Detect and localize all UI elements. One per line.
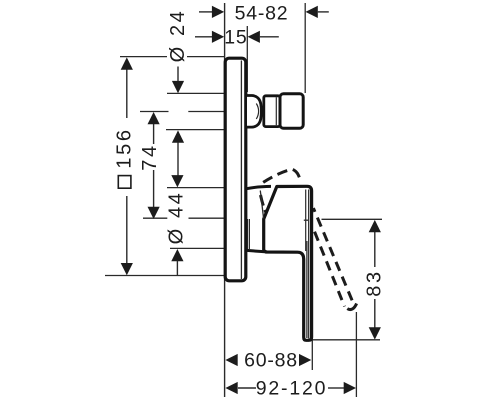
svg-text:54-82: 54-82 — [235, 2, 289, 24]
dashed body left edge — [261, 195, 268, 215]
dashed lever outer edge — [313, 208, 352, 301]
svg-text:92-120: 92-120 — [256, 378, 328, 400]
plate bottom extension line y275 — [105, 275, 225, 277]
dimension 74 arrow up — [148, 112, 160, 124]
spout tip extension line — [304, 3, 306, 93]
dimension 74 label — [139, 143, 161, 170]
cartridge bottom line y248 — [170, 247, 225, 249]
dimension O24 arrow down — [172, 81, 184, 93]
faceplate — [225, 58, 246, 281]
dimension 83 extension top — [322, 218, 383, 220]
handle cone top edge — [247, 186, 271, 188]
pipe top line y93 — [167, 92, 225, 94]
dimension 83 extension bottom — [312, 339, 380, 341]
dimension 15 — [195, 36, 212, 38]
cartridge top line y187 — [167, 187, 225, 189]
dimension O44 label — [165, 191, 187, 245]
dimension 156 arrow down — [121, 263, 133, 275]
dashed lever top edge — [263, 169, 301, 182]
svg-text:74: 74 — [139, 143, 161, 170]
faceplate inner face line — [240, 61, 242, 280]
dimension 156 label — [114, 127, 136, 188]
pipe bottom line y129 — [166, 129, 225, 131]
dimension 60-88 — [225, 354, 237, 366]
dimension 156 line — [126, 68, 128, 118]
svg-text:60-88: 60-88 — [244, 350, 298, 372]
stop ring bell — [247, 96, 261, 128]
dimension 83 line — [374, 232, 376, 267]
dimension 92-120 — [225, 382, 237, 394]
spout block — [264, 96, 280, 127]
wall plane extension line — [224, 3, 226, 397]
dashed lever tip — [347, 304, 356, 310]
dimension 156 arrow up — [121, 57, 133, 69]
lever tip extension line — [355, 312, 357, 397]
handle body and lever — [264, 186, 312, 340]
svg-text:15: 15 — [224, 27, 247, 49]
dimension O24 arrow up — [172, 130, 184, 142]
dimension 83 label — [364, 269, 386, 296]
stop ring inner arc — [256, 104, 258, 119]
dimension O24 line — [177, 67, 179, 83]
dimension 54-82 — [199, 11, 212, 13]
lever pivot tick — [304, 219, 308, 221]
plate face extension line — [246, 26, 248, 92]
dimension O44 arrow up — [171, 249, 183, 261]
dimension 83 arrow down — [369, 327, 381, 339]
line y218 — [143, 217, 167, 219]
link line O24-O44 — [177, 143, 179, 177]
dimension O44 arrow down — [171, 175, 183, 187]
svg-text:83: 83 — [364, 269, 386, 296]
dashed lever inner edge — [313, 229, 344, 307]
line y111 — [140, 111, 169, 113]
lever bottom extension line — [311, 340, 313, 370]
handle cone bottom edge — [247, 250, 267, 252]
svg-text:156: 156 — [114, 127, 136, 168]
cone profile line — [260, 191, 263, 219]
spout block face line — [275, 97, 277, 125]
spout end cap — [280, 94, 303, 128]
dimension O44 lower line — [176, 261, 178, 276]
dimension 74 arrow down — [148, 207, 160, 219]
top body line y56 — [120, 56, 167, 58]
lever inner line — [306, 241, 308, 338]
cone base lines — [247, 219, 249, 249]
dimension O24 label — [167, 9, 189, 63]
dimension 83 arrow up — [369, 220, 381, 232]
dimension 74 line — [153, 124, 155, 144]
lever face line — [305, 190, 307, 252]
svg-text:Ø 44: Ø 44 — [165, 191, 187, 245]
svg-text:Ø 24: Ø 24 — [167, 9, 189, 63]
